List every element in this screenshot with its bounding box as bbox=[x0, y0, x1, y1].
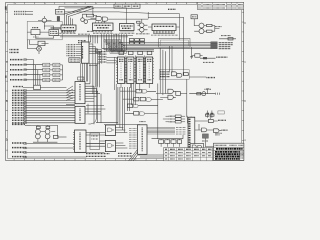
border zone ticks right bbox=[242, 12, 244, 150]
resistor RN4 bbox=[177, 140, 181, 144]
gate FF1 bubble bbox=[112, 129, 113, 130]
transformer T1 hatched bbox=[202, 134, 208, 138]
wire mid verticals down bbox=[94, 86, 101, 124]
wire A1 in bbox=[120, 90, 156, 92]
resistor R10 bbox=[36, 126, 40, 128]
crystal Y1 value bbox=[32, 27, 39, 29]
bus labels left column x14 bbox=[12, 90, 25, 122]
resistor R12 bbox=[53, 135, 58, 138]
net label above U17 bbox=[140, 121, 146, 123]
IC U4 pins top bbox=[96, 21, 105, 23]
capacitor C1 box bbox=[49, 30, 59, 36]
wire output rows bbox=[27, 144, 105, 158]
IC U4 cpu bbox=[93, 23, 114, 31]
pin labels gap fills top band bbox=[78, 33, 150, 35]
IC U15 label bbox=[79, 133, 81, 151]
net label T1 bbox=[202, 140, 209, 142]
output labels rows x4 bbox=[12, 143, 26, 157]
wire gate output to 5V drop bbox=[83, 14, 184, 19]
net label bottom A row bbox=[12, 123, 25, 125]
IC U3 latch bbox=[61, 25, 76, 30]
bus ripper label text bbox=[105, 41, 125, 52]
wire resnet stubs bbox=[161, 139, 179, 147]
wire center vertical comb bbox=[88, 84, 135, 125]
gate G1 bbox=[96, 16, 101, 20]
wire RP2 out bbox=[23, 86, 66, 88]
wire J0 drops bbox=[28, 40, 49, 54]
transistor Q10 bbox=[45, 129, 50, 134]
wire U10 right stubs bbox=[66, 96, 104, 114]
net label bracket bbox=[218, 111, 224, 114]
IC U15 pins left bbox=[73, 132, 75, 149]
notes text rows bbox=[86, 153, 132, 156]
wire diagonal fan top bbox=[65, 6, 95, 16]
wire U17 right pins fan bbox=[147, 128, 175, 135]
transistor Q6 bbox=[199, 23, 204, 28]
wire address bus verticals bbox=[102, 34, 127, 51]
IC U17 serial bbox=[138, 125, 148, 155]
border zone ticks top bbox=[14, 2, 237, 4]
wire U8 left pin stubs bbox=[76, 45, 82, 56]
gate A4 bbox=[140, 112, 145, 116]
wire U10 U9 right outputs bbox=[85, 86, 105, 114]
oscillator U7 label bbox=[192, 16, 197, 18]
ram pins right ticks bbox=[125, 59, 154, 81]
resistor box above J0 bbox=[38, 41, 45, 45]
gate G9 bbox=[214, 129, 219, 133]
wire vertical bus into U3 bbox=[65, 14, 73, 25]
gate G5 bbox=[168, 89, 173, 93]
svg-text:D: D bbox=[244, 22, 246, 25]
resistor R5 bbox=[207, 30, 213, 32]
ANDgate cluster A1 bbox=[136, 89, 141, 93]
IC U10 label bbox=[79, 84, 81, 101]
wire ram bottom stubs bbox=[121, 84, 149, 92]
oscillator box U7 bbox=[191, 15, 198, 19]
transistor Q1 bbox=[42, 18, 46, 22]
resistor RN2 bbox=[165, 140, 170, 144]
wire bottom diagonals bbox=[129, 150, 166, 162]
pin labels row under U6 bbox=[151, 34, 178, 36]
wire Q1 leads bbox=[38, 16, 52, 30]
wire top rail A bbox=[59, 6, 127, 15]
node SHEET2 arrow labels bbox=[14, 12, 26, 15]
svg-text:B: B bbox=[6, 99, 8, 103]
wire diag fan into U10 bbox=[66, 86, 73, 100]
revision table bbox=[198, 2, 244, 9]
wire right mid line bbox=[189, 93, 215, 95]
wire ram gap verticals bbox=[115, 56, 145, 91]
net labels right of U17 bbox=[176, 128, 186, 135]
net label G7 out bbox=[218, 119, 226, 121]
terminator boxes column bbox=[211, 42, 218, 49]
title block bbox=[214, 143, 244, 160]
IC U11 ram bbox=[118, 57, 125, 84]
gate inside box bbox=[192, 145, 201, 148]
gate G8 bbox=[202, 128, 207, 132]
gate column B buffers bbox=[53, 63, 60, 82]
gate cluster input labels bbox=[160, 72, 170, 77]
IC U11 label bbox=[119, 59, 124, 80]
resistor R13 bbox=[205, 114, 209, 116]
pin labels row under U4 bbox=[93, 32, 113, 34]
transistor Q3 bbox=[84, 20, 88, 24]
wire U8 right stubs low bbox=[89, 64, 100, 66]
wire gate cluster out bbox=[188, 74, 206, 77]
wire vertical bus left bbox=[34, 60, 40, 86]
IC U15 driver bbox=[75, 130, 87, 152]
net label RAS bbox=[78, 41, 86, 43]
trim box U16 bbox=[90, 133, 100, 150]
wire U8 top feeds bbox=[89, 35, 98, 43]
comparator rows cluster bbox=[169, 116, 175, 122]
border zone ticks bottom bbox=[14, 159, 237, 161]
wire U3 left input bbox=[51, 28, 62, 29]
IC U13 label bbox=[138, 59, 143, 80]
transistor Q11 bbox=[45, 134, 50, 139]
resistor R6 bbox=[195, 54, 200, 57]
parts list table bbox=[164, 148, 213, 161]
net label xtal freq bbox=[221, 35, 231, 37]
gate inside FF2 bbox=[107, 144, 111, 148]
wire bus rows x14 bbox=[25, 90, 75, 122]
bus rail under cpu row bbox=[54, 35, 133, 37]
resistor R14 bbox=[210, 114, 214, 116]
IC U5 bbox=[120, 24, 135, 31]
net label RP2 bbox=[13, 86, 23, 88]
resistor box RP2 bbox=[34, 85, 41, 89]
resistor R2 bbox=[87, 14, 94, 17]
resistor R9 bbox=[197, 93, 201, 95]
wire comparator outs bbox=[163, 116, 185, 122]
wire xtal net bbox=[27, 26, 53, 38]
gate G4 bbox=[177, 73, 182, 77]
net label gate out bbox=[207, 77, 216, 79]
gate G2 bbox=[102, 17, 108, 21]
SECTION:FRAME bbox=[6, 2, 244, 160]
clock box U2 bbox=[55, 9, 64, 14]
border inner frame bbox=[8, 4, 242, 158]
wire center vertical drops bbox=[118, 84, 131, 133]
gate A3 bbox=[134, 104, 139, 107]
border zone numbers top bbox=[15, 3, 188, 5]
bus ripper label box A bbox=[104, 40, 127, 54]
gate G6 bbox=[168, 95, 173, 99]
net label row mid bbox=[61, 31, 75, 33]
wire gate row links bbox=[50, 65, 63, 80]
IC U3 label bbox=[63, 27, 75, 29]
resistor box A4 bbox=[134, 112, 139, 116]
IC U10 buffer upper bbox=[75, 82, 85, 104]
clock box U2 label bbox=[57, 11, 63, 13]
resistor R7 bbox=[183, 73, 188, 76]
IC U6 label bbox=[154, 25, 174, 27]
IC U6 bbox=[152, 24, 176, 31]
wire driver pair nets bbox=[31, 125, 58, 142]
diode CR1 bbox=[203, 57, 207, 59]
transistor Q2 bbox=[81, 18, 85, 22]
wire U6 bottom rail bbox=[148, 27, 180, 34]
wire FF feeds bbox=[86, 128, 127, 149]
transistor Q7 bbox=[199, 29, 204, 34]
net labels right bus bbox=[219, 43, 233, 49]
svg-text:D: D bbox=[6, 21, 8, 25]
resistor R1 label inside box bbox=[33, 36, 39, 38]
border zone letters left bbox=[6, 7, 8, 141]
net label G9 out bbox=[222, 129, 228, 131]
svg-text:C: C bbox=[244, 61, 246, 64]
shield block inner bbox=[160, 40, 188, 46]
resistor pair row2 bbox=[134, 97, 146, 101]
gate column A buffers bbox=[43, 63, 50, 82]
IC U13 ram bbox=[136, 57, 143, 84]
capacitor C5 bbox=[211, 113, 214, 115]
IC U14 ram bbox=[146, 57, 153, 84]
fold mark blob left border low bbox=[5, 76, 7, 78]
capacitor C4 pair bbox=[206, 113, 209, 115]
resistor pair center bbox=[96, 49, 101, 53]
transistor Q5 bbox=[140, 28, 144, 32]
border zone ticks left bbox=[6, 12, 8, 150]
resistor box A3 bbox=[127, 104, 132, 107]
net label left zone C1 bbox=[10, 49, 20, 51]
svg-text:A: A bbox=[6, 137, 8, 141]
IC U12 ram bbox=[127, 57, 134, 84]
crystal Y1 bbox=[31, 30, 40, 35]
border outer frame bbox=[6, 2, 244, 160]
transistor Q8 bbox=[36, 129, 41, 134]
wire A4 net bbox=[125, 112, 158, 114]
wire Q4 Q5 leads bbox=[138, 19, 148, 34]
IC U8 decoder bbox=[82, 42, 90, 63]
net label above title block bbox=[215, 133, 222, 135]
net label under cpu left bbox=[87, 30, 93, 32]
IC U17 label bbox=[141, 128, 143, 152]
ram pins left ticks bbox=[116, 59, 146, 81]
connector J0 cross bbox=[37, 47, 40, 50]
connector circle J0 bbox=[37, 46, 42, 51]
flipflop FF2 box bbox=[105, 140, 115, 151]
wire C4 C5 drops bbox=[208, 111, 212, 118]
IC U8 sub box bbox=[69, 58, 80, 63]
capacitor C1 label bbox=[50, 31, 57, 33]
net label right C zone bbox=[216, 56, 227, 58]
gate column A labels bbox=[44, 65, 49, 80]
resistor R11 bbox=[46, 126, 50, 128]
IC U8 sub box label bbox=[70, 59, 79, 61]
IC U5 label bbox=[121, 26, 133, 28]
oscillator enclosure box bbox=[27, 21, 62, 39]
IC U5 pins bottom bbox=[121, 31, 133, 33]
IC U9 buffer lower bbox=[75, 106, 85, 123]
gate FF2 bubble bbox=[112, 145, 113, 146]
wire T1 drop bbox=[204, 138, 206, 147]
wire U8 bottom drops bbox=[81, 63, 87, 81]
net label L1 bbox=[205, 88, 212, 90]
fold mark blob left border bbox=[5, 6, 7, 9]
net label below bbox=[203, 61, 214, 63]
resistor R8 bbox=[176, 92, 181, 96]
gate G3 bbox=[172, 72, 177, 76]
title block dense rows bbox=[215, 151, 240, 153]
wire top rail B sloped bbox=[120, 12, 180, 14]
wire right drop x191 bbox=[191, 47, 193, 56]
net label bracket right bbox=[186, 116, 188, 124]
IC U8 label bbox=[82, 46, 84, 59]
net label osc out bbox=[215, 26, 222, 28]
shield block outline bbox=[159, 39, 191, 48]
trim box label bbox=[92, 136, 99, 139]
resistor box above U10 bbox=[78, 77, 84, 80]
resistor RN1 bbox=[159, 140, 164, 144]
IC U6 comb pins bottom bbox=[153, 31, 174, 34]
net label left zone C2 bbox=[10, 51, 20, 53]
svg-text:C: C bbox=[6, 60, 8, 64]
resistor R4 bbox=[207, 24, 213, 26]
gate G7 bbox=[209, 119, 214, 122]
IC U12 label bbox=[128, 59, 133, 80]
wire L1 tee bbox=[206, 89, 219, 95]
connector J1 bbox=[188, 117, 195, 150]
wire to title block bbox=[205, 146, 214, 148]
pin labels row under U3 bbox=[56, 32, 76, 34]
IC U4 label bbox=[95, 25, 112, 27]
IC U3 pins bottom bbox=[63, 30, 76, 32]
wire osc net bbox=[194, 19, 219, 31]
gate cluster box bbox=[159, 70, 189, 80]
IC U4 pins bottom bbox=[94, 31, 112, 33]
wire R6 net bbox=[192, 56, 216, 59]
wire row to driver pair bbox=[25, 124, 31, 126]
capacitor C3 bbox=[228, 38, 233, 40]
gate A2 bbox=[147, 98, 152, 102]
ground at R6 bbox=[190, 57, 193, 59]
wire right bus lines bbox=[119, 43, 211, 48]
connector pin symbols left column bbox=[24, 59, 27, 158]
wire input rows to bus bbox=[24, 60, 43, 80]
sheet title strip top center bbox=[114, 4, 140, 8]
ram left labels column bbox=[99, 52, 107, 62]
gate box above parts table bbox=[190, 144, 204, 150]
title block company band bbox=[216, 148, 243, 150]
wire 5V drop bbox=[127, 8, 180, 40]
flipflop FF1 box bbox=[105, 125, 115, 136]
IC U9 label bbox=[79, 109, 81, 122]
transistor Q4 bbox=[140, 23, 144, 27]
comparator row boxes bbox=[175, 115, 181, 123]
net label 5V bbox=[168, 8, 176, 10]
wire right long verticals bbox=[158, 17, 187, 138]
border zone letters right bbox=[244, 22, 246, 142]
wire R12 out bbox=[58, 136, 67, 138]
pin labels row under U5 bbox=[120, 32, 135, 34]
wire ram label stubs bbox=[107, 58, 118, 63]
connector J1 pin pads bbox=[189, 119, 191, 150]
input labels rows x5 bbox=[10, 60, 23, 80]
inductor L1 bbox=[202, 92, 206, 96]
title block top row bbox=[214, 146, 244, 148]
wire G5 G6 nets bbox=[156, 91, 187, 97]
transistor Q9 bbox=[36, 134, 41, 139]
wire resnet rail bbox=[152, 135, 184, 139]
wire A3 net bbox=[138, 105, 158, 107]
wire U10 right verticals up bbox=[85, 64, 97, 95]
gate column B labels bbox=[54, 65, 59, 80]
gate inside FF1 bbox=[107, 128, 111, 132]
IC U8 pins left with labels bbox=[67, 45, 76, 56]
wire horiz jogs to U17 bbox=[96, 123, 140, 125]
wire ram top bus rails bbox=[102, 48, 212, 51]
resistor pack boxes row1 bbox=[129, 39, 144, 45]
capacitor C2 polarized bbox=[57, 16, 60, 21]
IC U17 pins left labeled bbox=[129, 128, 138, 148]
wire G7 G8 G9 nets bbox=[195, 116, 221, 131]
gate A1 bbox=[142, 90, 147, 94]
IC U14 label bbox=[147, 59, 152, 80]
ram row header boxes bbox=[119, 51, 152, 54]
resistor R3 bbox=[137, 21, 140, 23]
wire A2 nets bbox=[123, 98, 163, 100]
wire U8 right verticals down bbox=[89, 44, 102, 94]
wire bottom right run bbox=[219, 38, 236, 40]
ram inner text columns bbox=[121, 64, 149, 79]
wire sheet-arrow stubs bbox=[26, 12, 33, 15]
resistor RN3 bbox=[171, 140, 176, 144]
